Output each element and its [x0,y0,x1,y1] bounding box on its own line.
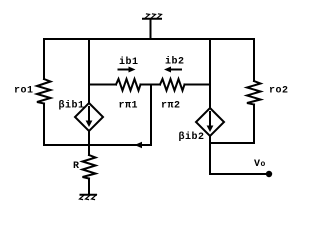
svg-text:R: R [73,161,80,172]
resistor rpi2 [160,79,185,91]
wire ro2 branch bottom [253,105,255,144]
wire beta-ib1 branch [88,39,90,103]
wire top rail [44,38,254,40]
wire rpi1 right lead [141,84,152,86]
node Vo terminal [266,171,272,177]
ground chassis bottom [80,195,97,200]
wire output [210,173,266,175]
svg-text:Vo: Vo [254,159,266,170]
wire ro2 bottom link [210,142,254,144]
wire R lead top [88,145,90,155]
wire rpi2 right lead [185,84,211,86]
svg-text:ro2: ro2 [269,86,289,97]
svg-text:βib2: βib2 [179,131,205,143]
resistor ro2 [247,81,261,105]
current source beta-ib2 [196,108,224,136]
current arrow ib2 [164,67,181,73]
wire diamond2 to output [209,136,211,174]
wire beta-ib2 branch [209,39,211,108]
wire rpi1 left lead [89,84,116,86]
wire left branch top [43,39,45,79]
wire bottom [44,144,151,146]
wire mid branch down [150,85,152,146]
svg-text:ib2: ib2 [165,56,185,68]
svg-text:ib1: ib1 [119,56,139,68]
resistor ro1 [37,79,51,104]
resistor rpi1 [116,79,141,91]
wire ro2 branch top [253,39,255,81]
current arrow ib1 [119,67,136,73]
ground chassis top [143,14,162,39]
wire rpi2 left lead [151,84,160,86]
svg-text:rπ1: rπ1 [119,101,139,112]
svg-text:rπ2: rπ2 [161,101,181,112]
current arrow on bottom wire [135,142,143,148]
resistor R [83,155,96,179]
wire diamond1 to bottom [88,131,90,145]
wire R lead bottom [88,179,90,195]
wire left branch bottom [43,104,45,146]
current source beta-ib1 [75,103,103,131]
svg-text:ro1: ro1 [14,86,34,97]
svg-text:βib1: βib1 [59,100,85,112]
